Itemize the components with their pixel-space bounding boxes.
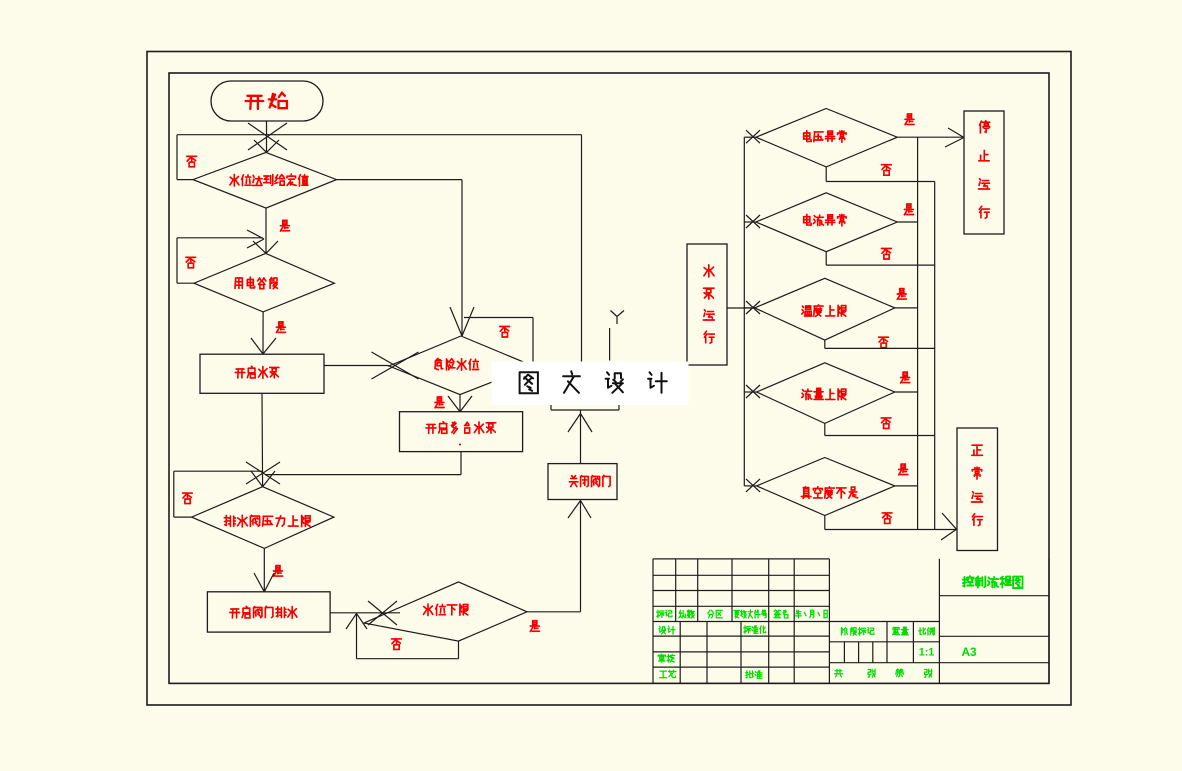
label 否 (D3) (500, 327, 510, 338)
decision D3r 温度上限 (755, 278, 895, 340)
wire D1 yes-branch right to D3 (337, 180, 463, 336)
label 否 (D1r) (882, 165, 892, 176)
wire D3r yes -> bus (895, 307, 918, 309)
svg-text:A3: A3 (962, 645, 978, 659)
wire 开启水泵 -> D3 with X mark (324, 352, 419, 379)
process 开启多台水泵 (400, 412, 523, 452)
label 是 (D5) (530, 621, 539, 632)
wire D4 -> box 开启阀门排水 with arrow (254, 548, 274, 591)
titleblock label 设计 (659, 626, 675, 634)
wire D4r yes -> bus (895, 391, 918, 393)
svg-text:1:1: 1:1 (919, 647, 935, 659)
label 否 (D5r) (882, 513, 892, 524)
label 是 (D3) (435, 397, 444, 408)
process 关闭阀门 (548, 464, 617, 500)
label 是 (D1r) (905, 114, 914, 125)
terminator 停止运行 (vertical) (964, 111, 1004, 234)
titleblock label 阶段标记 (842, 628, 874, 636)
label 否 (D4r) (881, 418, 891, 429)
terminator 开始 (Start) (211, 81, 323, 121)
wire D5 yes -> 关闭阀门 with arrow (527, 500, 591, 612)
wire D5r left stub (744, 485, 756, 487)
label 否 (D3r) (879, 337, 889, 348)
titleblock label 审核 (658, 654, 675, 662)
titleblock label 更改文件号 (734, 610, 767, 618)
wire D4r no -> bus (825, 423, 935, 435)
wire D3r no -> bus (825, 340, 935, 348)
wire D3 no-loop (464, 318, 533, 367)
outer border frame (147, 52, 1071, 706)
decision D1r 电压异常 (756, 109, 897, 167)
label 是 (D3r) (897, 289, 906, 300)
wire 关闭阀门 up to bracket with arrow (568, 410, 592, 464)
decision D3 危险水位 (389, 336, 533, 395)
wire D1r no -> bus (826, 167, 935, 182)
short wire below Y (609, 328, 611, 361)
wire vertical x=581.5 down to watermark (581, 135, 583, 362)
titleblock label 比例 (919, 628, 935, 636)
wire 开启阀门排水 -> D5 with X mark (330, 601, 400, 625)
wire 开启水泵 -> D4 with cross and arrow (246, 393, 280, 486)
decision D1 水位达到给定值 (193, 152, 337, 208)
decision D4 排水阀压力上限 (192, 487, 334, 549)
title block grid (653, 559, 1049, 684)
wire D1r left stub (744, 136, 756, 138)
wire top feedback horizontal y=134.7 (177, 134, 582, 136)
titleblock label 重量 (892, 627, 908, 635)
watermark white panel (492, 362, 689, 406)
bus vertical no x=934.7 (934, 182, 936, 530)
titleblock label 批准 (746, 671, 763, 679)
label 是 (D2r) (904, 204, 913, 215)
process 开启阀门排水 (207, 592, 330, 632)
label 否 (D5) (392, 639, 402, 650)
wire 开启多台水泵 down-left to D4 junction (266, 452, 461, 475)
junction marks on trunk (746, 130, 760, 143)
label 是 (D4) (274, 566, 283, 577)
arrowhead into D3 top (450, 307, 474, 336)
wire D1 no-loop left (177, 135, 193, 180)
wire D3r left stub (744, 307, 754, 309)
wire D2 no-loop with arrow (177, 230, 264, 283)
wire D2r no -> bus (826, 252, 935, 265)
titleblock label 签名 (774, 610, 788, 618)
titleblock label 处数 (679, 610, 695, 618)
label 否 (D4) (183, 493, 193, 504)
titleblock label 年、月、日 (796, 610, 828, 618)
label 是 (D5r) (899, 464, 908, 475)
decision D5r 真空度不足 (757, 458, 895, 516)
wire D4 no-loop (174, 471, 262, 517)
wire D2 -> box 开启水泵 with arrow (251, 312, 276, 354)
decision D4r 流量上限 (757, 363, 895, 424)
titleblock label 共 张 第 张 (835, 669, 843, 677)
process 开启水泵 (200, 354, 324, 393)
bracket under watermark (551, 405, 619, 410)
titleblock label 标准化 (744, 626, 766, 634)
label 是 (D1) (280, 220, 289, 231)
label 否 (D2r) (882, 249, 892, 260)
wire D5r no -> 正常运行 with arrow (825, 513, 957, 540)
bus vertical yes x=917.6 (917, 137, 919, 529)
wire D5 no-loop with up arrow (346, 613, 459, 658)
wire start->decision1 with cross mark (248, 121, 287, 152)
titleblock label 标记 (657, 610, 672, 618)
label 否 (D1) (187, 156, 197, 167)
titleblock label 分区 (708, 610, 723, 618)
Y mark above watermark (611, 311, 625, 325)
titleblock title 控制流程图 (963, 576, 1023, 588)
decision D5 水位下限 (364, 582, 527, 641)
wire D3 -> box 开启多台水泵 with arrow (448, 395, 472, 412)
terminator 正常运行 (vertical) (957, 428, 998, 551)
label 否 (D2) (186, 257, 196, 268)
wire D1 -> D2 with arrow (253, 208, 278, 253)
label 是 (D2) (276, 322, 285, 333)
wire D1r yes -> 停止运行 with arrow (897, 128, 964, 147)
process 水泵运行 (vertical) (687, 244, 727, 365)
wire D5r yes -> bus (895, 485, 918, 487)
watermark text 图 文 设 计 (520, 371, 667, 393)
wire D2r yes -> bus (897, 221, 917, 223)
inner border frame (169, 73, 1049, 683)
wire D2r left stub (744, 221, 756, 223)
wire 水泵运行 -> D3r (727, 307, 755, 309)
decision D2 用电谷段 (194, 253, 334, 312)
label 是 (D4r) (901, 372, 910, 383)
trunk vertical left (743, 137, 745, 486)
titleblock label 工艺 (660, 670, 676, 677)
wire D4r left stub (744, 391, 756, 393)
decision D2r 电流异常 (756, 193, 897, 252)
